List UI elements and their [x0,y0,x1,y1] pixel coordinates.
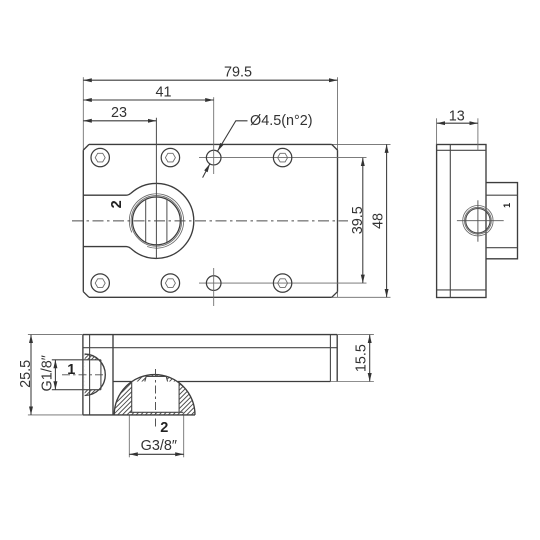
bottom view left edge [82,335,84,415]
bottom view top edge [83,334,337,336]
side view body outline [437,145,486,298]
hex socket screws (6x) [91,148,109,166]
side port bore [466,209,490,233]
svg-text:79.5: 79.5 [224,65,252,81]
svg-text:23: 23 [111,105,127,121]
dimension 15.5 [369,335,371,382]
dimension G1/8 [54,360,56,390]
front view: bottom edge [89,296,332,298]
port 2 drill tip trapezoid [145,376,168,381]
port 1 bore end [100,360,102,390]
25.5 dim bottom extension [28,414,83,416]
port 2 centerline [155,369,157,427]
port 2 boss dome arc [114,375,195,415]
front view: right edge extension (79.5 dim) [337,77,339,150]
callout D4.5 (n 2) leader [218,121,248,151]
side view boss outline [486,183,518,259]
dimension 13 extension lines [436,118,438,144]
port 2 wrench flats [145,199,147,242]
block / boss bottom face line [83,414,195,416]
side view top inner line [437,149,486,151]
boss tab upper line [83,193,131,195]
port 2 vertical centerline / 23-dim extension [155,118,157,259]
dimension 48 [386,144,388,297]
port 2 bore circle [133,197,181,245]
bottom view left inner vertical [89,335,91,415]
svg-text:15.5: 15.5 [353,344,369,372]
svg-text:G1/8″: G1/8″ [40,355,56,391]
front view: top edge extension (48 dim) [332,143,391,145]
svg-text:25.5: 25.5 [18,360,34,388]
left block right edge [112,335,114,415]
svg-text:48: 48 [370,213,386,229]
svg-text:2: 2 [160,420,168,436]
dimension 41 [83,99,213,101]
port 2 bore sides [131,382,133,413]
svg-text:39.5: 39.5 [350,206,366,234]
side view inner vertical line [449,145,451,298]
dimension 79.5 [83,79,337,81]
svg-text:41: 41 [155,84,171,100]
svg-text:13: 13 [449,108,465,124]
front view: corner chamfers [83,144,89,150]
side port ring outer [463,206,493,236]
front view: right edge [337,150,339,292]
port 1 bore bottom (w/ G1/8 ext) [52,389,101,391]
svg-text:2: 2 [109,200,125,208]
port 1 bore top (w/ G1/8 ext) [52,359,101,361]
port 1 boss dome arc [85,354,106,395]
boss tab lower line [83,247,131,249]
dimension 25.5 [30,335,32,415]
port 2 ring mid [131,196,182,247]
side port crosshair [457,220,504,222]
svg-text:1: 1 [502,203,512,208]
front view: top edge [89,143,332,145]
port 2 bore bottom [130,411,184,413]
port 1 centerline [62,374,104,376]
bar bottom edge segments [113,381,132,383]
front view horizontal centerline [72,220,348,222]
dimension 23 [83,120,156,122]
dimension 39.5 [362,158,364,284]
dimension G3/8 [129,453,183,455]
bottom view inner top line [83,347,337,349]
front view: bottom hole row line [199,282,367,284]
svg-text:1: 1 [67,362,75,378]
svg-text:G3/8″: G3/8″ [141,438,177,454]
mounting hole D4.5 bottom [206,276,221,291]
mounting hole D4.5 top [206,150,221,165]
front view: left edge [82,150,84,292]
dimension 25.5 top extension [28,334,83,336]
front view: bottom edge extension (48 dim) [332,296,391,298]
side port ring mid [465,207,492,234]
boss outer arc [131,183,194,258]
G3/8 extension lines [128,416,130,458]
svg-text:Ø4.5(n°2): Ø4.5(n°2) [250,113,313,129]
dimension 15.5 extension lines [337,334,374,336]
bottom view right end edges [329,335,331,382]
side view bottom inner line [437,289,486,291]
port 2 thread ring (3/4 arc) [129,194,183,248]
front view: top hole row line [199,157,367,159]
dimension 13 [437,122,478,124]
side view boss tab lines [486,194,518,196]
front view: left edge extension (79.5 dim) [82,77,84,150]
